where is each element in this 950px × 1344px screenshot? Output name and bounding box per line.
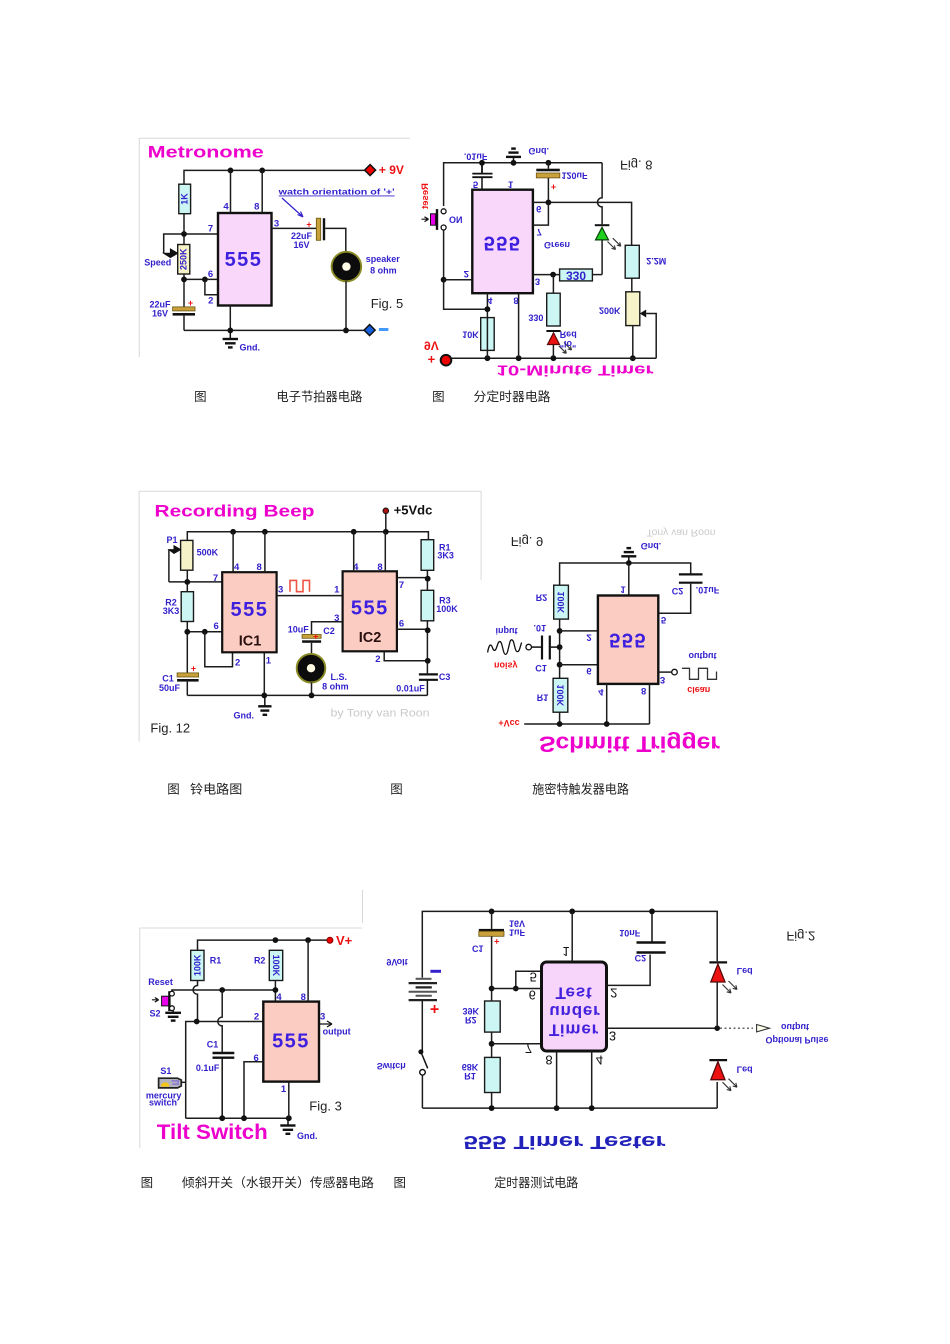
resistor R1 68K panel6 bbox=[462, 1057, 500, 1092]
wire R2 to R1 bbox=[559, 619, 561, 678]
wire pin8 stub bbox=[261, 170, 263, 213]
svg-text:Fig. 3: Fig. 3 bbox=[309, 1099, 342, 1114]
potentiometer 200K bbox=[599, 292, 656, 358]
wire R3 to C3 bbox=[426, 621, 428, 674]
svg-text:8: 8 bbox=[545, 1052, 552, 1067]
node pin6 IC2 bbox=[425, 627, 431, 633]
svg-text:+: + bbox=[313, 632, 318, 642]
node pin4-rail bbox=[485, 355, 491, 361]
mercury switch S1 bbox=[159, 1078, 186, 1088]
svg-text:C2: C2 bbox=[672, 586, 684, 596]
svg-text:Gnd.: Gnd. bbox=[234, 711, 255, 721]
wire 250K to cap bbox=[183, 274, 185, 307]
svg-text:.01: .01 bbox=[533, 623, 546, 633]
svg-text:330: 330 bbox=[528, 313, 543, 323]
svg-text:4: 4 bbox=[234, 562, 240, 573]
svg-text:3K3: 3K3 bbox=[437, 551, 454, 561]
op-amp U3 555 chip flipped bbox=[598, 596, 658, 684]
wire pin4 branch bbox=[486, 293, 488, 358]
node speaker-rail bbox=[343, 328, 349, 334]
capacitor 22uF output bbox=[291, 218, 325, 250]
Vcc rail flipped bbox=[524, 723, 649, 725]
wire right side to rail bbox=[716, 1082, 718, 1108]
wire pin2 IC2 bbox=[384, 651, 427, 661]
svg-text:C1: C1 bbox=[472, 943, 484, 953]
node rail IC2 pin4 bbox=[351, 529, 357, 535]
svg-text:555: 555 bbox=[484, 232, 522, 254]
terminal 9V flipped bbox=[424, 338, 451, 366]
ground symbol bbox=[223, 330, 238, 347]
wire 1K to 250K bbox=[183, 214, 185, 245]
wire C2 to pin5 bbox=[658, 584, 690, 614]
svg-text:6: 6 bbox=[208, 269, 213, 280]
svg-text:C1: C1 bbox=[162, 674, 174, 684]
svg-text:120uF: 120uF bbox=[561, 171, 588, 181]
resistor R 1K bbox=[179, 184, 191, 214]
svg-text:Speed: Speed bbox=[144, 258, 171, 268]
node R1-rail panel6 bbox=[489, 1105, 495, 1111]
panel 6 image border sliver bbox=[362, 890, 364, 923]
svg-text:output: output bbox=[323, 1027, 351, 1037]
pushbutton NO bbox=[422, 209, 447, 230]
svg-text:定时器测试电路: 定时器测试电路 bbox=[494, 1175, 578, 1190]
svg-text:8: 8 bbox=[257, 562, 262, 573]
resistor 330 horizontal bbox=[560, 268, 603, 282]
capacitor C1 50uF bbox=[159, 664, 199, 696]
svg-text:V+: V+ bbox=[336, 933, 353, 948]
ground rail bbox=[184, 329, 365, 331]
svg-text:Fig. 9: Fig. 9 bbox=[511, 534, 544, 549]
node rail +5V bbox=[383, 529, 389, 535]
capacitor .01uF bbox=[472, 163, 492, 190]
svg-text:555: 555 bbox=[225, 249, 263, 271]
svg-text:图: 图 bbox=[167, 783, 180, 797]
svg-text:1: 1 bbox=[334, 585, 340, 596]
wire V+ rail panel5 bbox=[198, 940, 328, 950]
svg-text:clean: clean bbox=[687, 685, 710, 695]
svg-text:铃电路图: 铃电路图 bbox=[190, 782, 242, 797]
wire green LED branch with hop bbox=[597, 163, 602, 224]
capacitor 120uF bbox=[536, 163, 588, 203]
output terminal circle bbox=[672, 669, 678, 675]
svg-text:555: 555 bbox=[272, 1031, 310, 1053]
svg-text:68K: 68K bbox=[462, 1062, 479, 1072]
svg-text:Led: Led bbox=[737, 966, 753, 976]
svg-text:Metronome: Metronome bbox=[148, 142, 264, 161]
svg-text:.01uF: .01uF bbox=[696, 585, 720, 595]
wire pin2 bbox=[444, 279, 473, 281]
node pin2 IC2 bbox=[425, 658, 431, 664]
wire pin8 IC2 stub bbox=[384, 532, 386, 572]
wire pin7 bbox=[164, 234, 218, 253]
svg-text:9Volt: 9Volt bbox=[386, 957, 407, 967]
svg-text:3K3: 3K3 bbox=[163, 606, 180, 616]
resistor R2 100K panel4 bbox=[536, 585, 569, 619]
svg-text:7: 7 bbox=[399, 580, 404, 591]
node pin7 IC1 bbox=[184, 579, 190, 585]
svg-text:Reset: Reset bbox=[420, 183, 431, 210]
LED red bbox=[546, 331, 571, 358]
svg-text:图: 图 bbox=[394, 1176, 407, 1190]
node C1-pin6 bbox=[489, 986, 495, 992]
ground symbol panel5 bbox=[280, 1118, 295, 1134]
pushbutton S2 bbox=[152, 991, 174, 1011]
node pin6 IC1 a bbox=[184, 629, 190, 635]
svg-text:Test: Test bbox=[556, 984, 593, 1003]
svg-text:input: input bbox=[496, 626, 518, 636]
svg-text:5: 5 bbox=[661, 614, 667, 625]
node rail C1 bbox=[489, 909, 495, 915]
svg-text:Red: Red bbox=[560, 330, 577, 340]
node rail C2 bbox=[649, 909, 655, 915]
svg-text:6: 6 bbox=[536, 203, 541, 214]
node pin6 b bbox=[202, 277, 208, 283]
svg-text:555: 555 bbox=[609, 629, 647, 651]
svg-text:2: 2 bbox=[586, 631, 591, 642]
panel 3 image border bbox=[139, 491, 481, 742]
op-amp U2 555 chip flipped bbox=[472, 190, 533, 294]
svg-text:Gnd.: Gnd. bbox=[240, 343, 261, 353]
wire pin2 panel5 bbox=[186, 1022, 264, 1119]
node pin3-led bbox=[714, 1025, 720, 1031]
label watch orientation bbox=[277, 187, 394, 218]
wire pin6 panel6 bbox=[492, 988, 542, 990]
node pin6-rail bbox=[241, 1115, 247, 1121]
svg-text:1: 1 bbox=[620, 584, 626, 595]
node pin2 bbox=[441, 277, 447, 283]
node C1-rail bbox=[219, 1115, 225, 1121]
node gnd bbox=[227, 328, 233, 334]
wire pin3 output arrow bbox=[319, 1021, 332, 1027]
svg-text:6: 6 bbox=[529, 987, 536, 1002]
svg-text:4: 4 bbox=[276, 992, 282, 1003]
svg-text:3: 3 bbox=[535, 276, 540, 287]
wire pin7 IC1 bbox=[169, 581, 222, 583]
node R1-rail bbox=[557, 721, 563, 727]
svg-text:4: 4 bbox=[596, 1052, 603, 1067]
svg-text:100K: 100K bbox=[436, 604, 458, 614]
svg-text:8 ohm: 8 ohm bbox=[370, 266, 397, 276]
node pin8-rail bbox=[516, 355, 522, 361]
wire top rail bbox=[187, 532, 428, 541]
ground rail panel3 bbox=[187, 694, 427, 696]
node led-rail bbox=[551, 355, 557, 361]
wire pin3 to cap bbox=[272, 227, 317, 229]
potentiometer P1 500K bbox=[166, 535, 218, 582]
wire battery to switch bbox=[421, 1000, 423, 1052]
svg-text:output: output bbox=[689, 651, 717, 661]
node pin7 junction panel6 bbox=[489, 1041, 495, 1047]
wire pin3 bbox=[533, 274, 560, 276]
svg-text:555: 555 bbox=[230, 599, 268, 621]
svg-text:电子节拍器电路: 电子节拍器电路 bbox=[276, 389, 362, 404]
node rail-120uF bbox=[546, 160, 552, 166]
node rail pin1 bbox=[569, 909, 575, 915]
wire pin6 panel4 bbox=[560, 664, 598, 666]
waveform pulse symbol bbox=[290, 580, 310, 591]
svg-text:+: + bbox=[188, 298, 193, 308]
svg-text:by Tony van Roon: by Tony van Roon bbox=[331, 708, 430, 720]
wire pin6 panel5 bbox=[244, 1062, 263, 1118]
svg-text:Schmitt Trigger: Schmitt Trigger bbox=[539, 731, 720, 756]
svg-text:Timer: Timer bbox=[549, 1021, 599, 1040]
svg-text:3: 3 bbox=[278, 585, 283, 596]
svg-text:Fig.2: Fig.2 bbox=[786, 929, 815, 944]
svg-text:+: + bbox=[428, 352, 436, 367]
wire pin3 to output bbox=[658, 671, 671, 673]
svg-text:1: 1 bbox=[281, 1084, 287, 1095]
wire cap to rail bbox=[183, 316, 185, 331]
wire pin3 IC1 to pin1 IC2 bbox=[277, 595, 343, 597]
wire pin2 panel6 bbox=[607, 955, 651, 986]
node 200K-rail bbox=[630, 355, 636, 361]
svg-text:output: output bbox=[781, 1022, 809, 1032]
svg-text:Green: Green bbox=[544, 240, 570, 250]
svg-text:R1: R1 bbox=[537, 693, 549, 703]
svg-text:6: 6 bbox=[399, 619, 404, 630]
wire R2 to C1 bbox=[186, 622, 188, 673]
capacitor C2 panel4 bbox=[679, 574, 703, 582]
terminal +5Vdc bbox=[383, 503, 432, 532]
wire pin7 panel6 bbox=[492, 1043, 542, 1045]
node rail IC1 pin8 bbox=[262, 529, 268, 535]
node pin7 IC2 bbox=[425, 576, 431, 582]
node rail-pin8 bbox=[259, 168, 265, 174]
svg-text:100K: 100K bbox=[271, 955, 281, 977]
wire pin3 panel6 bbox=[607, 1027, 718, 1029]
wire pin6 IC2 bbox=[397, 628, 429, 630]
op-amp U4 555 chip panel5 bbox=[263, 1002, 319, 1082]
svg-text:C2: C2 bbox=[635, 953, 647, 963]
terminal minus bbox=[364, 325, 388, 336]
resistor 2.2M bbox=[625, 245, 666, 291]
svg-text:Recording Beep: Recording Beep bbox=[155, 502, 315, 521]
resistor R2 3K3 bbox=[163, 592, 194, 622]
capacitor C3 0.01uF bbox=[419, 674, 438, 695]
node reset-C1 bbox=[219, 987, 225, 993]
svg-text:speaker: speaker bbox=[366, 254, 401, 264]
node pin2-R1 bbox=[194, 1019, 200, 1025]
capacitor 22uF/16V timing bbox=[149, 298, 195, 319]
svg-text:+: + bbox=[494, 937, 499, 947]
node pin7 bbox=[181, 231, 187, 237]
svg-text:图: 图 bbox=[390, 783, 403, 797]
svg-text:C1: C1 bbox=[535, 663, 547, 673]
svg-text:watch orientation of '+': watch orientation of '+' bbox=[277, 187, 394, 197]
svg-text:P1: P1 bbox=[166, 535, 177, 545]
svg-text:.01uF: .01uF bbox=[464, 152, 488, 162]
wire pin8 IC1 stub bbox=[264, 532, 266, 572]
panel 5 image border bbox=[140, 928, 362, 1148]
svg-text:+: + bbox=[191, 664, 196, 674]
svg-text:100K: 100K bbox=[556, 591, 566, 613]
svg-text:+: + bbox=[306, 220, 311, 230]
svg-text:Gnd.: Gnd. bbox=[529, 146, 550, 156]
svg-text:555 Timer Tester: 555 Timer Tester bbox=[464, 1132, 666, 1152]
capacitor C2 10nF panel6 bbox=[637, 911, 666, 952]
node pin6 a bbox=[181, 277, 187, 283]
node rail pin8 bbox=[305, 937, 311, 943]
resistor R3 100K bbox=[421, 590, 458, 621]
wire speaker to rail bbox=[345, 281, 347, 330]
svg-text:2: 2 bbox=[375, 654, 380, 665]
node speaker-rail bbox=[309, 693, 315, 699]
capacitor C1 panel4 bbox=[532, 636, 560, 660]
svg-text:图: 图 bbox=[194, 390, 207, 404]
terminal +9V bbox=[365, 163, 404, 177]
dotted output arrow bbox=[720, 1025, 770, 1032]
svg-text:1: 1 bbox=[266, 656, 272, 667]
wire R1 vertical with hop bbox=[193, 981, 197, 1022]
capacitor C1 1uF panel6 bbox=[472, 911, 526, 1001]
wire R1 to pin7 bbox=[426, 570, 428, 590]
svg-text:2: 2 bbox=[254, 1012, 259, 1023]
svg-text:9V: 9V bbox=[424, 338, 439, 352]
svg-text:6: 6 bbox=[586, 665, 591, 676]
wire pin6 IC1 bbox=[187, 631, 222, 633]
wire pin2 panel4 bbox=[560, 630, 598, 632]
node pin1-rail panel5 bbox=[286, 1115, 292, 1121]
svg-text:2: 2 bbox=[208, 296, 213, 307]
wire pin5 panel6 bbox=[516, 971, 542, 988]
LED green bbox=[595, 225, 621, 274]
svg-text:8 ohm: 8 ohm bbox=[322, 682, 349, 692]
wire pin1 stub panel4 bbox=[628, 563, 630, 596]
svg-text:7: 7 bbox=[525, 1041, 532, 1056]
IC timer under test chip bbox=[542, 962, 607, 1051]
svg-text:16V: 16V bbox=[509, 919, 525, 929]
svg-text:Tilt Switch: Tilt Switch bbox=[157, 1121, 268, 1144]
node pin6-cap bbox=[546, 200, 552, 206]
svg-text:S1: S1 bbox=[160, 1066, 171, 1076]
svg-text:Optional Pulse: Optional Pulse bbox=[765, 1035, 828, 1045]
svg-text:ON: ON bbox=[449, 214, 463, 224]
waveform clean output bbox=[682, 668, 717, 679]
waveform noisy input bbox=[488, 640, 522, 655]
svg-text:2: 2 bbox=[235, 658, 240, 669]
svg-text:7: 7 bbox=[537, 226, 542, 237]
svg-text:倾斜开关（水银开关）传感器电路: 倾斜开关（水银开关）传感器电路 bbox=[182, 1175, 374, 1190]
svg-text:L.S.: L.S. bbox=[331, 672, 348, 682]
wire C1 vertical with hop bbox=[218, 990, 222, 1052]
svg-text:7: 7 bbox=[208, 224, 213, 235]
ground symbol panel3 bbox=[258, 695, 271, 714]
svg-text:5: 5 bbox=[530, 969, 537, 984]
node pin5-pin6 bbox=[513, 986, 519, 992]
wire top rail panel6 bbox=[422, 911, 717, 977]
ground symbol flipped bbox=[506, 149, 521, 163]
resistor R2 100K panel5 bbox=[254, 950, 283, 980]
svg-text:2: 2 bbox=[610, 986, 617, 1001]
speaker SP1 bbox=[332, 252, 401, 282]
resistor R1 100K panel4 bbox=[537, 678, 568, 712]
wire pin4 IC2 stub bbox=[353, 532, 355, 572]
node pin4-button bbox=[485, 306, 491, 312]
node rail R2 bbox=[273, 937, 279, 943]
wire pin3 IC2 to C2 bbox=[312, 622, 343, 635]
node rail-cap01 bbox=[479, 160, 485, 166]
label minus flipped bbox=[430, 970, 441, 973]
node pin8-rail panel6 bbox=[554, 1105, 560, 1111]
svg-text:8: 8 bbox=[301, 992, 306, 1003]
wire top rail bbox=[444, 163, 602, 206]
svg-text:C3: C3 bbox=[439, 672, 451, 682]
capacitor C1 panel5 bbox=[213, 1053, 235, 1118]
svg-text:16V: 16V bbox=[293, 240, 309, 250]
wire pin7 bbox=[533, 202, 549, 225]
wire pin8 stub panel6 bbox=[556, 1051, 558, 1108]
node pin4-rail panel6 bbox=[589, 1105, 595, 1111]
svg-text:5: 5 bbox=[473, 179, 479, 190]
svg-text:+: + bbox=[430, 1000, 439, 1017]
node rail-gnd bbox=[511, 160, 517, 166]
svg-text:分定时器电路: 分定时器电路 bbox=[474, 389, 551, 404]
wire pin8 stub panel5 bbox=[307, 940, 309, 1002]
svg-text:"lo": "lo" bbox=[560, 339, 577, 349]
svg-text:noisy: noisy bbox=[494, 661, 518, 671]
svg-text:1: 1 bbox=[508, 179, 514, 190]
svg-text:Reset: Reset bbox=[148, 977, 173, 987]
svg-text:IC1: IC1 bbox=[239, 634, 262, 650]
LED 1 red flipped bbox=[709, 962, 737, 1028]
svg-text:8: 8 bbox=[377, 562, 382, 573]
speaker L.S. bbox=[297, 654, 349, 696]
svg-text:Fig. 8: Fig. 8 bbox=[620, 158, 653, 173]
node pin6 IC1 b bbox=[202, 629, 208, 635]
svg-text:switch: switch bbox=[149, 1098, 177, 1108]
op-amp IC2 555 chip bbox=[343, 571, 397, 651]
svg-text:555: 555 bbox=[351, 598, 389, 620]
wire R2 to R1 bbox=[491, 1032, 493, 1057]
node pin3 bbox=[550, 272, 556, 278]
svg-text:C2: C2 bbox=[323, 626, 335, 636]
svg-text:1: 1 bbox=[562, 944, 569, 959]
wire gnd rail flipped bbox=[560, 563, 691, 585]
svg-text:R1: R1 bbox=[464, 1071, 476, 1081]
svg-text:8: 8 bbox=[641, 685, 646, 696]
wire pin1 stub panel6 bbox=[571, 911, 573, 962]
svg-text:2: 2 bbox=[464, 268, 469, 279]
wire R1 to rail panel6 bbox=[491, 1093, 493, 1109]
svg-text:330: 330 bbox=[566, 268, 586, 282]
svg-text:100K: 100K bbox=[192, 954, 202, 976]
resistor R2 39K panel6 bbox=[463, 1001, 501, 1032]
node C1 junction bbox=[557, 644, 563, 650]
svg-text:Fig. 12: Fig. 12 bbox=[150, 721, 190, 736]
input terminal circle bbox=[526, 644, 532, 650]
svg-text:Gnd.: Gnd. bbox=[641, 541, 662, 551]
svg-text:S2: S2 bbox=[150, 1009, 161, 1019]
ground symbol flipped panel4 bbox=[621, 548, 636, 563]
svg-text:Switch: Switch bbox=[377, 1061, 406, 1071]
svg-text:Gnd.: Gnd. bbox=[297, 1131, 318, 1141]
node pin2 junction bbox=[557, 628, 563, 634]
switch panel6 bbox=[418, 1049, 427, 1108]
svg-text:10nF: 10nF bbox=[619, 928, 641, 938]
svg-text:16V: 16V bbox=[152, 309, 168, 319]
svg-text:6: 6 bbox=[253, 1053, 258, 1064]
node pin6 junction bbox=[557, 662, 563, 668]
wire pin6 bbox=[533, 202, 632, 245]
svg-text:100K: 100K bbox=[555, 684, 565, 706]
svg-text:1K: 1K bbox=[180, 193, 190, 205]
terminal V+ bbox=[327, 933, 353, 948]
wire pin1 IC1 stub bbox=[263, 652, 265, 695]
svg-text:6: 6 bbox=[213, 621, 218, 632]
svg-text:8: 8 bbox=[254, 202, 259, 213]
svg-text:10uF: 10uF bbox=[288, 624, 310, 634]
wire pin8 stub bbox=[518, 293, 520, 358]
